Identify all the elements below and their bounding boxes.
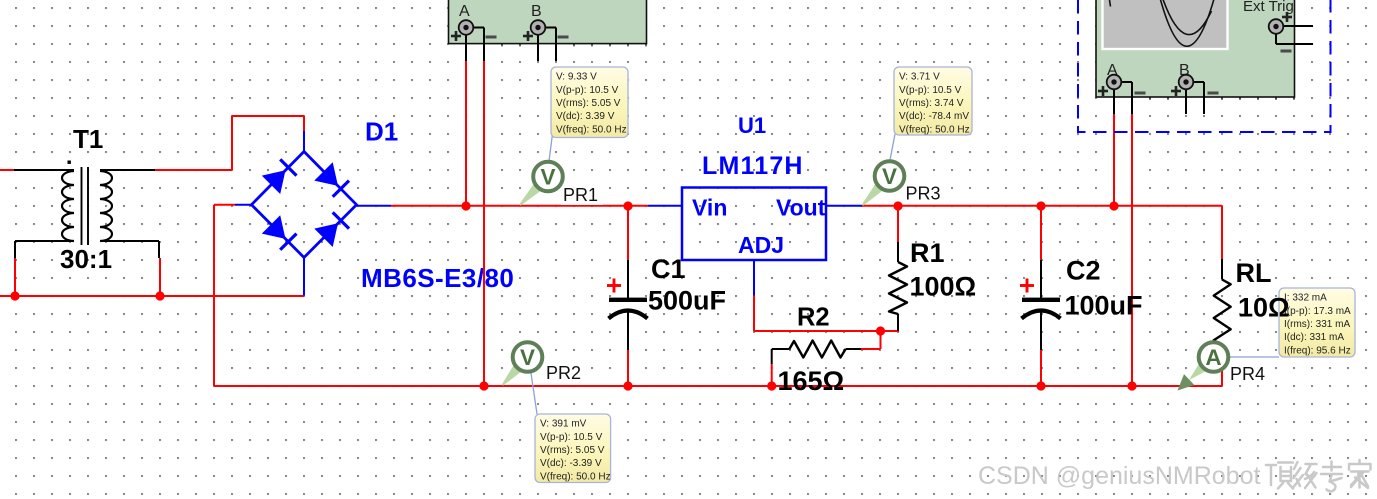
svg-text:V(dc): -78.4 mV: V(dc): -78.4 mV: [899, 111, 969, 122]
svg-text:I(freq): 95.6 Hz: I(freq): 95.6 Hz: [1284, 345, 1351, 356]
svg-text:V: 391 mV: V: 391 mV: [540, 419, 587, 430]
svg-text:V(rms): 3.74 V: V(rms): 3.74 V: [899, 98, 964, 109]
svg-text:I(rms): 331 mA: I(rms): 331 mA: [1284, 319, 1350, 330]
svg-text:V(rms): 5.05 V: V(rms): 5.05 V: [540, 445, 605, 456]
svg-text:Vout: Vout: [776, 195, 826, 221]
svg-text:PR3: PR3: [906, 184, 941, 204]
svg-text:I(dc): 331 mA: I(dc): 331 mA: [1284, 332, 1344, 343]
svg-text:V(p-p): 10.5 V: V(p-p): 10.5 V: [556, 85, 619, 96]
svg-text:I: 332 mA: I: 332 mA: [1284, 293, 1327, 304]
svg-text:100uF: 100uF: [1065, 291, 1143, 321]
svg-text:V: V: [520, 345, 535, 370]
svg-text:Vin: Vin: [692, 195, 727, 221]
svg-text:T1: T1: [73, 124, 103, 154]
svg-text:V: V: [540, 165, 555, 190]
svg-text:D1: D1: [365, 117, 398, 147]
svg-text:PR1: PR1: [563, 185, 598, 205]
svg-text:I(p-p): 17.3 mA: I(p-p): 17.3 mA: [1284, 306, 1351, 317]
svg-text:A: A: [459, 3, 470, 20]
svg-text:100Ω: 100Ω: [910, 272, 977, 302]
svg-text:RL: RL: [1236, 258, 1272, 288]
svg-text:V(p-p): 10.5 V: V(p-p): 10.5 V: [899, 85, 962, 96]
svg-text:C2: C2: [1066, 256, 1101, 286]
svg-text:V(rms): 5.05 V: V(rms): 5.05 V: [556, 98, 621, 109]
svg-text:A: A: [1205, 345, 1221, 370]
svg-text:R1: R1: [910, 238, 945, 268]
svg-text:LM117H: LM117H: [702, 152, 804, 180]
svg-text:V(dc): 3.39 V: V(dc): 3.39 V: [556, 111, 615, 122]
svg-text:PR2: PR2: [546, 363, 581, 383]
svg-text:10Ω: 10Ω: [1238, 293, 1290, 323]
svg-text:V(freq): 50.0 Hz: V(freq): 50.0 Hz: [540, 471, 611, 482]
svg-text:V: 9.33 V: V: 9.33 V: [556, 72, 597, 83]
svg-text:V(dc): -3.39 V: V(dc): -3.39 V: [540, 458, 602, 469]
svg-text:30:1: 30:1: [60, 244, 112, 274]
svg-text:ADJ: ADJ: [738, 232, 784, 258]
svg-text:B: B: [531, 3, 542, 20]
svg-text:R2: R2: [797, 304, 830, 332]
svg-text:500uF: 500uF: [648, 286, 726, 316]
svg-text:CSDN @geniusNMRobot: CSDN @geniusNMRobot: [978, 462, 1260, 490]
svg-text:PR4: PR4: [1230, 364, 1265, 384]
svg-text:165Ω: 165Ω: [778, 366, 845, 396]
svg-text:MB6S-E3/80: MB6S-E3/80: [361, 263, 514, 293]
svg-text:V(freq): 50.0 Hz: V(freq): 50.0 Hz: [556, 124, 627, 135]
svg-text:V: 3.71 V: V: 3.71 V: [899, 72, 940, 83]
svg-text:V: V: [882, 164, 897, 189]
svg-text:C1: C1: [651, 254, 686, 284]
svg-text:U1: U1: [738, 113, 766, 138]
svg-text:V(freq): 50.0 Hz: V(freq): 50.0 Hz: [899, 124, 970, 135]
svg-text:V(p-p): 10.5 V: V(p-p): 10.5 V: [540, 432, 603, 443]
